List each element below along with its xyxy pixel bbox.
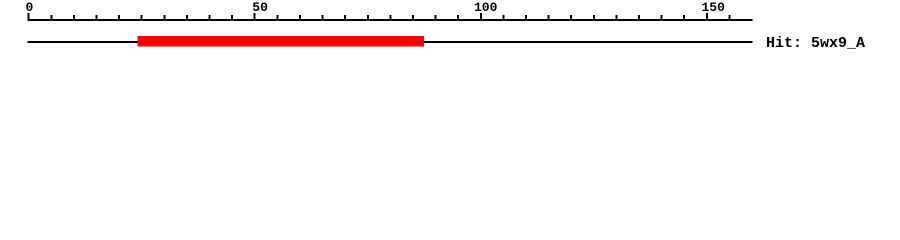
ruler label 0 bbox=[26, 0, 34, 15]
ruler label 100 bbox=[474, 0, 497, 15]
hit span bar bbox=[138, 36, 424, 47]
ruler baseline bbox=[28, 19, 753, 21]
query line bbox=[28, 41, 753, 43]
major tick 0 bbox=[28, 13, 30, 21]
major tick 150 bbox=[706, 13, 708, 21]
ruler label 150 bbox=[702, 0, 725, 15]
minor ticks every 5 units bbox=[50, 15, 730, 21]
ruler label 50 bbox=[252, 0, 268, 15]
major tick 50 bbox=[254, 13, 256, 21]
major tick 100 bbox=[480, 13, 482, 21]
hit name text bbox=[766, 35, 865, 52]
ruler axis graphic bbox=[0, 0, 900, 60]
